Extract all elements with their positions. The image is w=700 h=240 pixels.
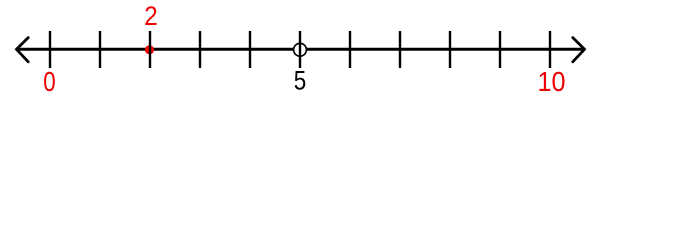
tick 1 <box>99 31 101 68</box>
svg-text:2: 2 <box>144 1 158 31</box>
number line (main horizontal axis) <box>16 48 585 51</box>
svg-text:5: 5 <box>294 65 307 95</box>
tick 6 <box>349 31 351 68</box>
right arrowhead <box>573 38 585 62</box>
left arrowhead <box>17 38 29 62</box>
filled red point at 2 <box>145 45 154 54</box>
tick 4 <box>249 31 251 68</box>
tick 8 <box>449 31 451 68</box>
tick 5 <box>299 31 301 68</box>
tick 9 <box>499 31 501 68</box>
tick 10 <box>549 31 551 68</box>
tick 7 <box>399 31 401 68</box>
tick 0 <box>49 31 51 68</box>
tick 2 <box>149 31 151 68</box>
svg-text:0: 0 <box>43 66 55 97</box>
svg-text:10: 10 <box>538 66 566 97</box>
tick 3 <box>199 31 201 68</box>
open circle at 5 <box>294 43 307 56</box>
